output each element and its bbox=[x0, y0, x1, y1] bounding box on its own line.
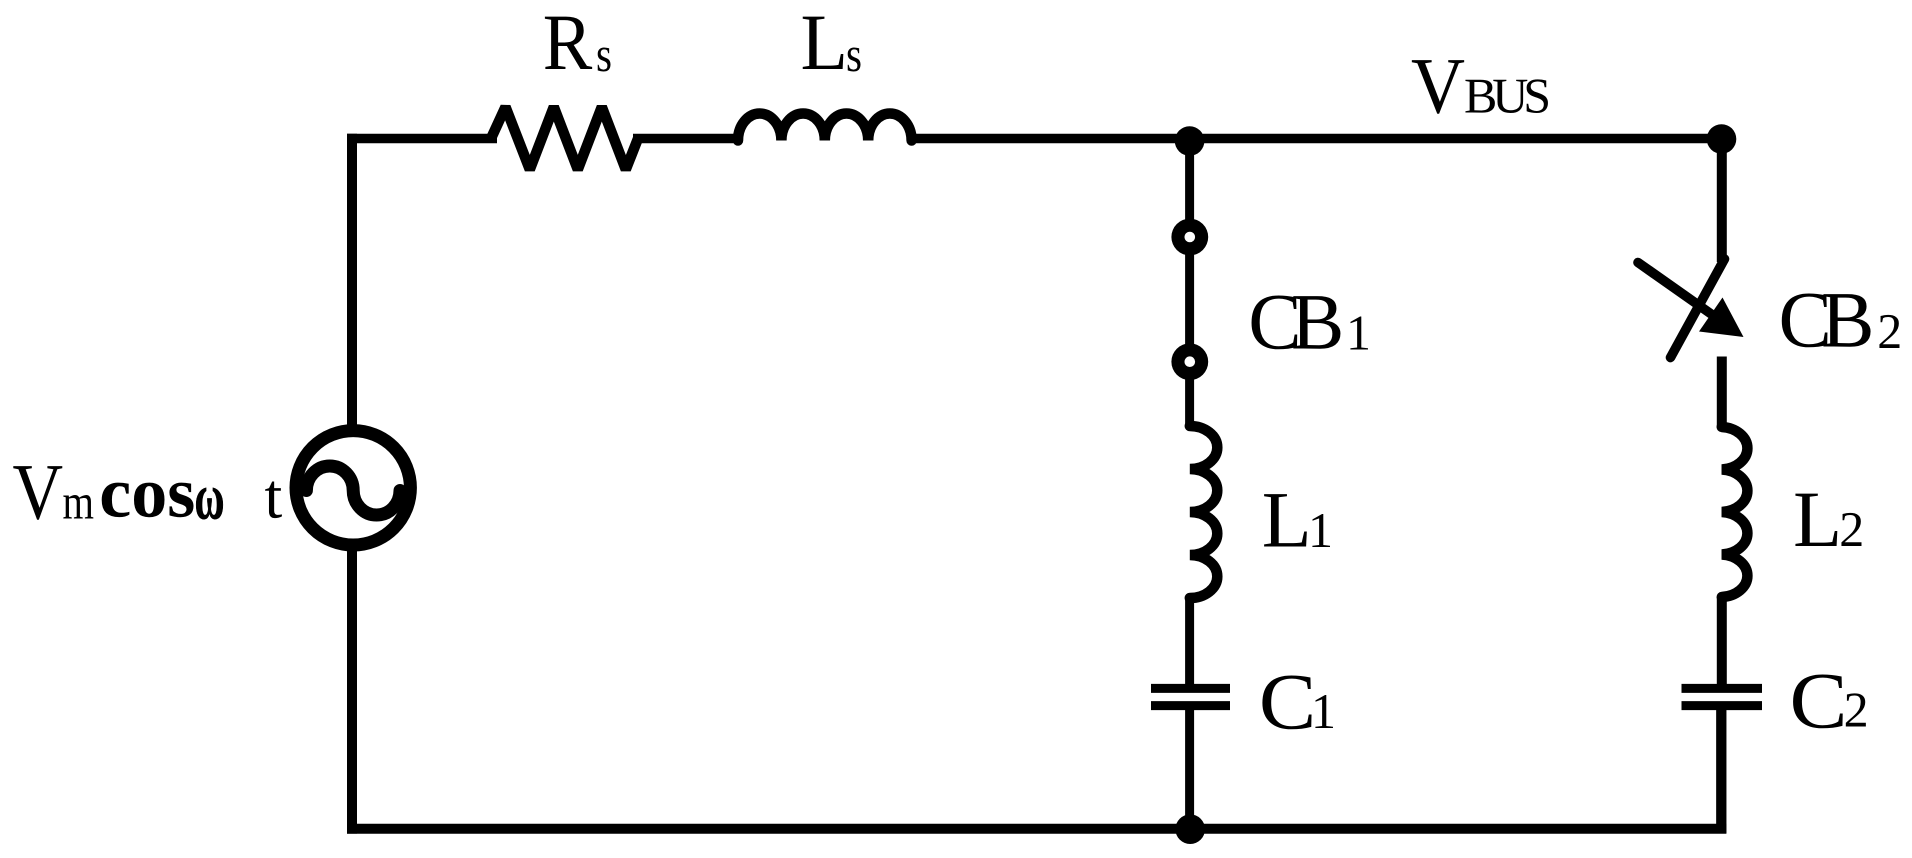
wire: middle branch between L1 and C1 bbox=[1185, 598, 1194, 685]
svg-text:1: 1 bbox=[1308, 502, 1333, 558]
svg-text:1: 1 bbox=[1346, 305, 1371, 361]
svg-text:R: R bbox=[543, 0, 593, 87]
svg-text:1: 1 bbox=[1311, 683, 1336, 739]
wire: middle branch below CB1 bbox=[1185, 377, 1194, 426]
wire: bottom horizontal bbox=[347, 824, 1726, 834]
svg-text:2: 2 bbox=[1844, 682, 1869, 738]
source: sine tilde bbox=[306, 466, 400, 515]
svg-text:2: 2 bbox=[1877, 303, 1902, 359]
wire: right branch between L2 and C2 bbox=[1717, 597, 1727, 685]
breaker CB2 blade bbox=[1671, 259, 1725, 358]
capacitor C2 top plate bbox=[1682, 684, 1763, 693]
wire: middle branch lower bbox=[1185, 709, 1194, 832]
capacitor C1 top plate bbox=[1151, 684, 1230, 693]
node: junction dot at bus left bbox=[1175, 126, 1205, 156]
breaker CB1 contact circle upper bbox=[1171, 219, 1208, 256]
wire: top horizontal left segment bbox=[347, 134, 497, 144]
wire: between Rs and Ls bbox=[633, 134, 740, 144]
capacitor C1 bottom plate bbox=[1151, 701, 1230, 710]
wire: right branch upper bbox=[1717, 139, 1727, 262]
breaker CB2 arrowhead bbox=[1699, 298, 1744, 338]
inductor Ls bbox=[738, 113, 912, 140]
svg-text:C: C bbox=[1259, 658, 1316, 746]
resistor Rs bbox=[491, 107, 638, 170]
svg-text:L: L bbox=[1262, 477, 1312, 565]
svg-text:cos: cos bbox=[99, 453, 195, 533]
svg-text:L: L bbox=[1793, 476, 1842, 564]
wire: middle branch upper bbox=[1185, 141, 1194, 222]
node: junction dot bottom bbox=[1175, 814, 1205, 844]
svg-text:s: s bbox=[846, 26, 862, 82]
wire: between CB1 contacts bbox=[1185, 252, 1194, 346]
node: junction dot at bus right bbox=[1707, 124, 1737, 154]
svg-text:BUS: BUS bbox=[1464, 68, 1551, 124]
inductor L2 bbox=[1722, 427, 1748, 597]
inductor L1 bbox=[1190, 426, 1217, 598]
wire: top horizontal right segment to bus bbox=[910, 134, 1722, 144]
svg-text:s: s bbox=[596, 26, 612, 82]
wire: left vertical upper bbox=[347, 134, 357, 431]
svg-text:t: t bbox=[265, 461, 283, 532]
source: AC voltage source circle bbox=[296, 431, 410, 545]
svg-text:CB: CB bbox=[1248, 279, 1344, 367]
svg-text:m: m bbox=[63, 474, 95, 530]
wire: right branch lower bbox=[1716, 709, 1726, 834]
wire: right branch below CB2 bbox=[1717, 357, 1727, 429]
capacitor C2 bottom plate bbox=[1682, 701, 1763, 710]
svg-text:V: V bbox=[13, 448, 64, 536]
svg-text:V: V bbox=[1411, 42, 1465, 130]
breaker CB1 contact circle lower bbox=[1171, 343, 1208, 380]
svg-text:CB: CB bbox=[1779, 277, 1875, 365]
wire: left vertical lower bbox=[347, 545, 357, 834]
breaker CB2 arrow shaft bbox=[1638, 263, 1714, 317]
svg-text:L: L bbox=[801, 0, 849, 87]
svg-text:ω: ω bbox=[195, 462, 225, 534]
svg-text:C: C bbox=[1790, 658, 1848, 746]
svg-text:2: 2 bbox=[1839, 501, 1864, 557]
